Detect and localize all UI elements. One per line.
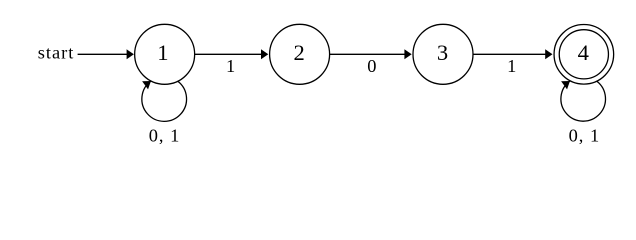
svg-text:1: 1 bbox=[157, 40, 168, 65]
arrowhead 1->2 bbox=[261, 49, 268, 59]
state 1 bbox=[135, 24, 195, 84]
arrowhead self-loop 1 bbox=[142, 81, 151, 89]
svg-text:0, 1: 0, 1 bbox=[569, 125, 601, 145]
svg-text:3: 3 bbox=[437, 40, 448, 65]
state 3 bbox=[413, 24, 473, 84]
svg-text:2: 2 bbox=[293, 40, 304, 65]
state 2 bbox=[270, 24, 330, 84]
wire 3 to 4 bbox=[473, 53, 546, 55]
svg-text:1: 1 bbox=[507, 56, 517, 76]
arrowhead self-loop 4 bbox=[561, 81, 570, 89]
svg-text:0: 0 bbox=[367, 56, 377, 76]
arrowhead 2->3 bbox=[404, 49, 411, 59]
arrowhead 3->4 bbox=[545, 49, 552, 59]
state 4 inner circle bbox=[559, 30, 608, 79]
svg-text:4: 4 bbox=[578, 40, 589, 65]
wire 1 to 2 bbox=[195, 53, 262, 55]
svg-text:0, 1: 0, 1 bbox=[149, 125, 181, 145]
svg-text:start: start bbox=[38, 43, 75, 63]
wire 2 to 3 bbox=[330, 53, 405, 55]
self-loop on state 1 bbox=[142, 81, 187, 121]
svg-text:1: 1 bbox=[226, 56, 236, 76]
state 4 outer circle (accepting) bbox=[554, 25, 614, 85]
start arrow wire bbox=[78, 53, 128, 55]
arrowhead start->1 bbox=[127, 49, 134, 59]
self-loop on state 4 bbox=[561, 81, 606, 121]
